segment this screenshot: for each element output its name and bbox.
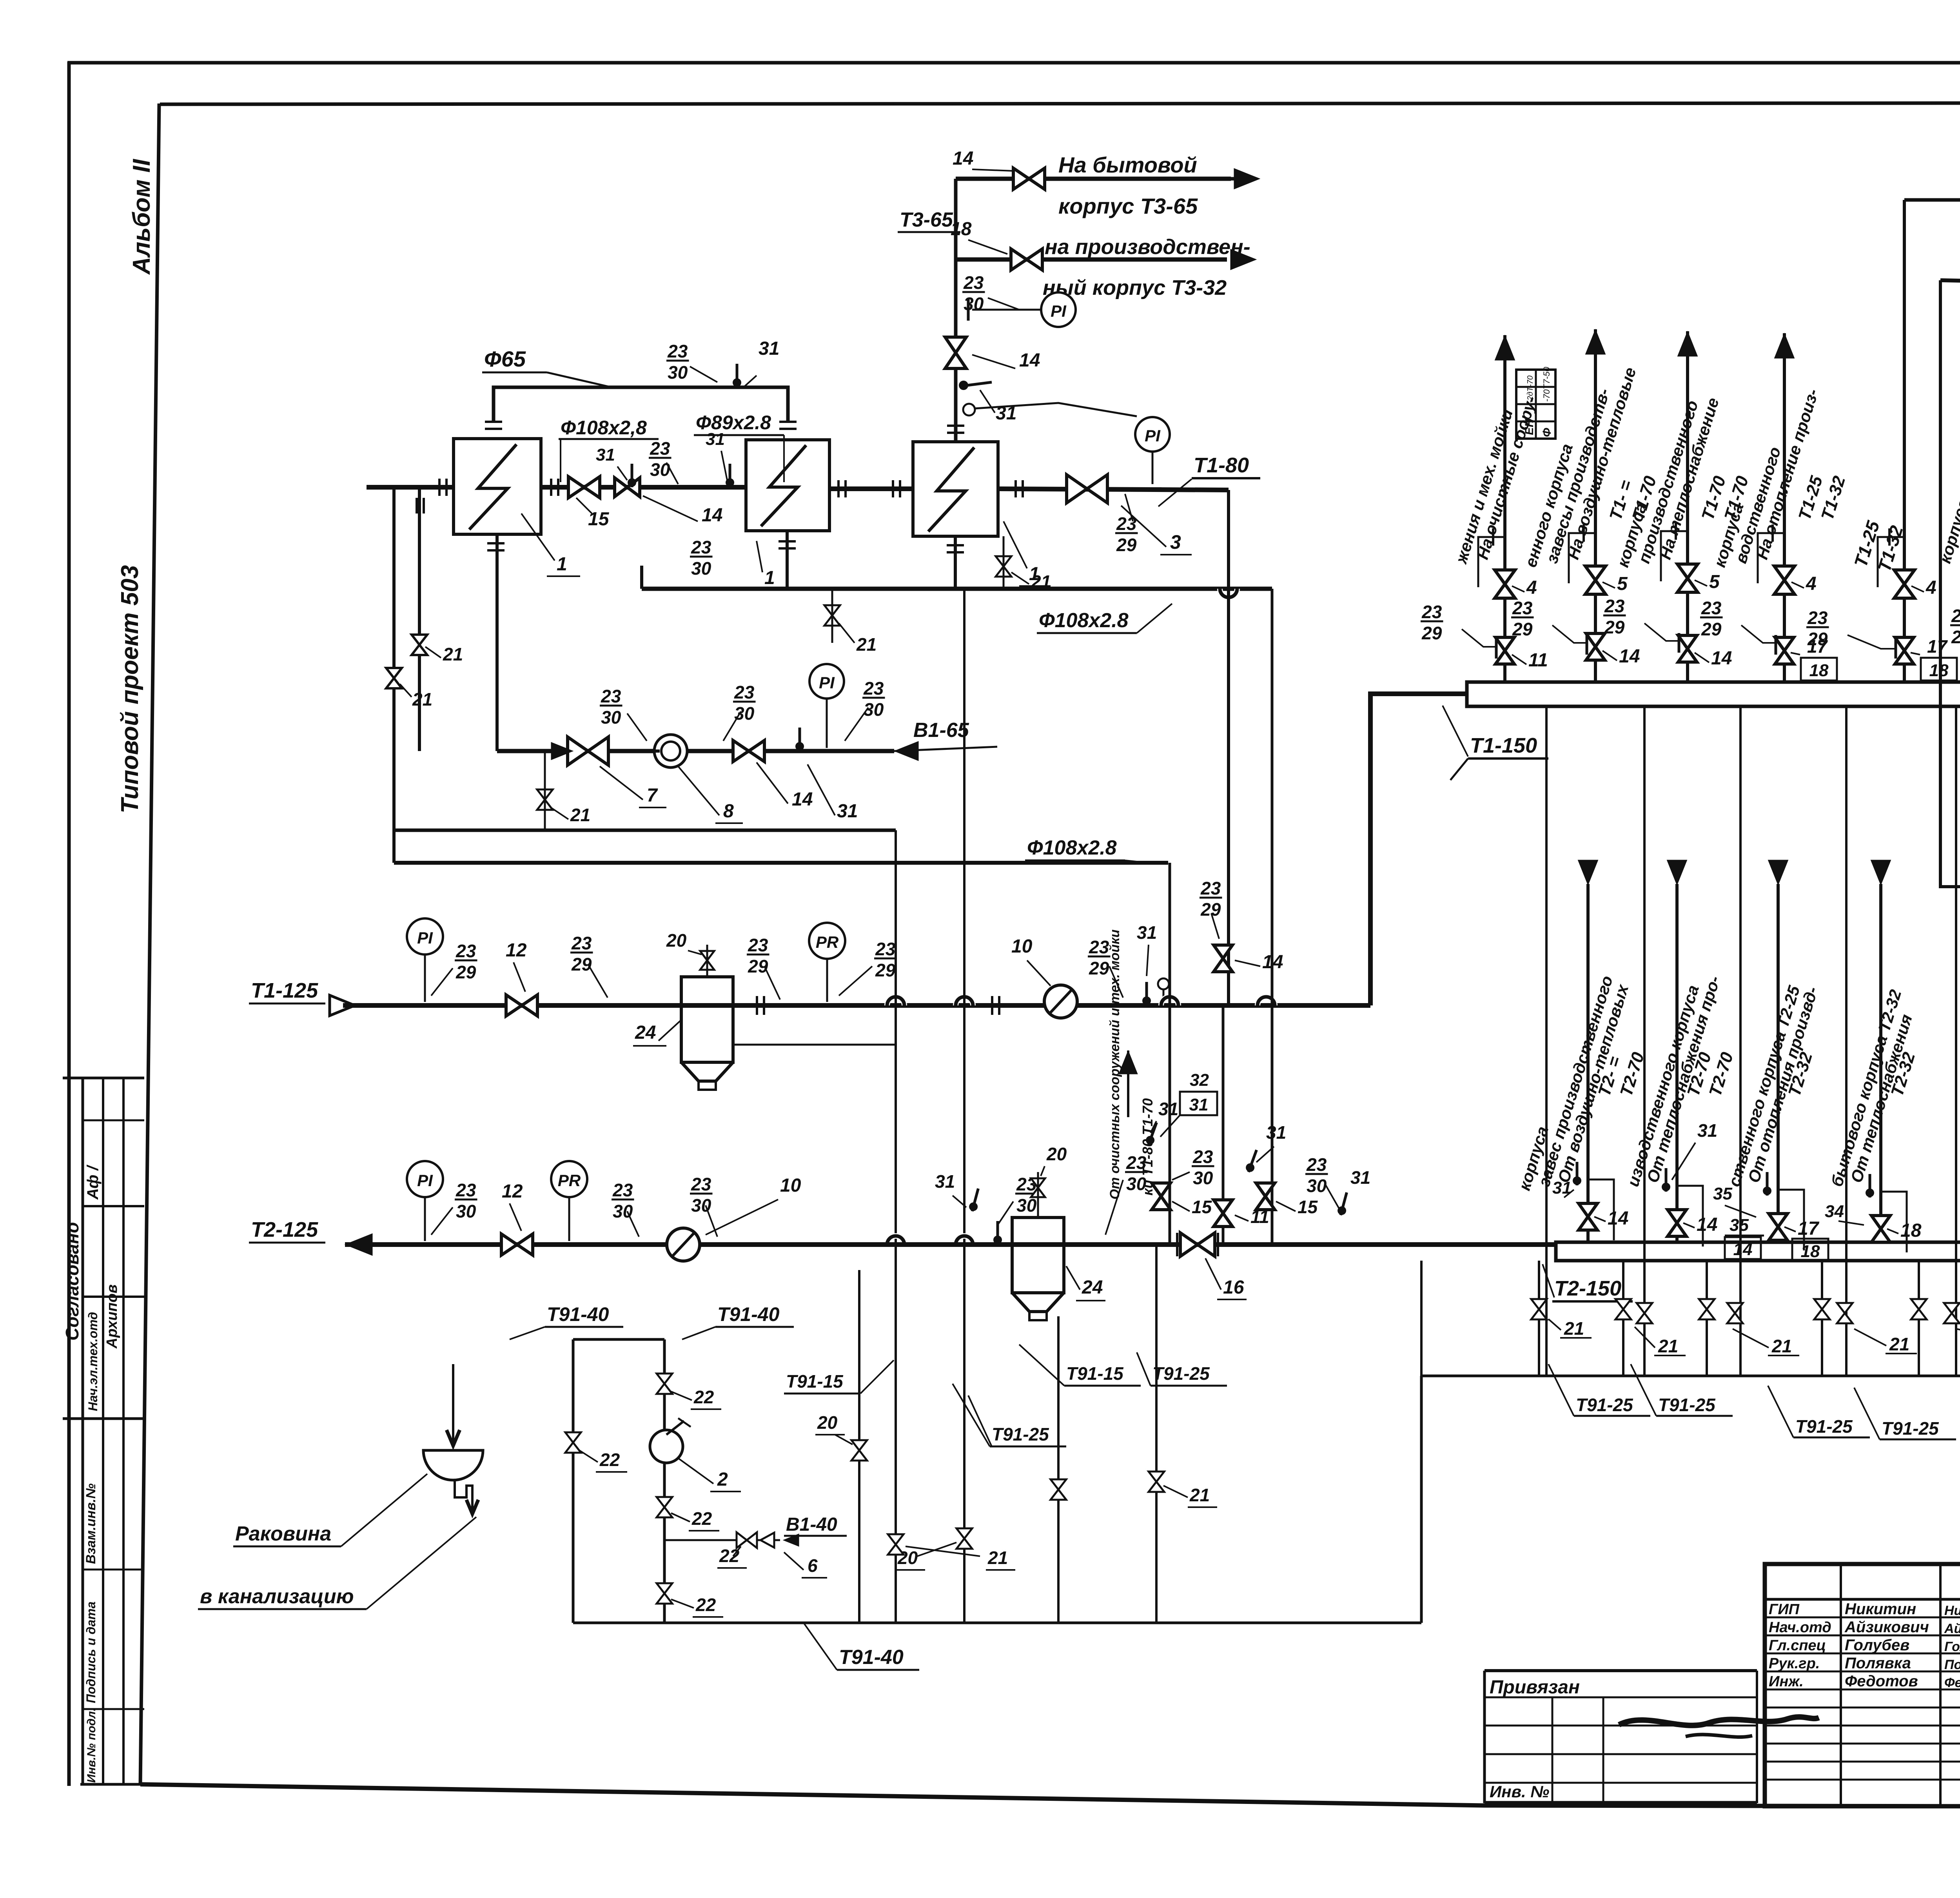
wire queue vert 2460 <box>963 589 965 1623</box>
wire HX2 bottom drop <box>786 531 789 589</box>
svg-text:30: 30 <box>668 362 688 383</box>
svg-text:29: 29 <box>1116 535 1137 555</box>
wire drain 2950 <box>1155 1245 1158 1623</box>
svg-text:23: 23 <box>1604 596 1625 616</box>
thermo 31 on 2984 <box>1145 1121 1161 1146</box>
valve 21 T2 drain 1 <box>1531 1299 1547 1319</box>
valve 22 on right vert 3 <box>657 1583 672 1604</box>
collector T2 stub <box>1420 1261 1423 1376</box>
hump T1 at 2984 <box>1161 997 1178 1005</box>
riser 4 На отопление производственного <box>1783 333 1786 682</box>
wire HX3 bottom drop <box>954 536 957 589</box>
svg-text:31: 31 <box>837 801 858 822</box>
svg-text:21: 21 <box>1031 572 1051 592</box>
wire T1 drain 2 <box>1643 706 1646 1376</box>
vent circle T1 <box>1158 978 1169 989</box>
flange right of HX2 <box>837 480 840 497</box>
svg-text:PI: PI <box>417 1171 433 1190</box>
valve 20 on 2192 <box>851 1440 867 1461</box>
svg-text:PI: PI <box>417 929 433 947</box>
wire sink inflow from collector <box>452 1364 454 1395</box>
svg-text:4: 4 <box>1526 577 1537 598</box>
margin table row2 <box>83 1205 144 1207</box>
svg-text:Ф65: Ф65 <box>484 347 526 371</box>
wire B1-65 line <box>497 749 894 753</box>
arrow T2-125 out <box>345 1234 372 1256</box>
inner frame top <box>160 103 1960 104</box>
wire Ф65 top <box>494 387 788 421</box>
svg-text:22: 22 <box>719 1546 740 1566</box>
svg-text:31: 31 <box>1266 1122 1286 1143</box>
svg-text:корпус Т3-65: корпус Т3-65 <box>1058 194 1198 218</box>
svg-text:Т91-40: Т91-40 <box>839 1646 904 1669</box>
svg-text:11: 11 <box>1528 650 1548 671</box>
svg-text:1: 1 <box>764 568 775 588</box>
wire HX main line <box>367 485 454 490</box>
svg-text:23: 23 <box>963 272 984 293</box>
instr PR T2 <box>551 1161 587 1197</box>
svg-text:22: 22 <box>599 1450 620 1470</box>
svg-text:23: 23 <box>650 438 670 459</box>
margin table row3 <box>83 1296 144 1298</box>
wire 3230 drop <box>1271 589 1274 1245</box>
valve 14 on T1-80 drop <box>1214 945 1232 972</box>
flange right of HX3 <box>1014 480 1017 497</box>
svg-text:14: 14 <box>1019 350 1040 371</box>
margin table bottom <box>80 1783 144 1786</box>
T2 riser A От воздушно-тепловых <box>1586 884 1590 1242</box>
pump 10 on T1 <box>1044 985 1077 1018</box>
wire 2984 drop <box>1169 863 1171 1245</box>
valve 12 T1 <box>506 995 537 1016</box>
svg-text:Ф108х2.8: Ф108х2.8 <box>1027 836 1117 859</box>
tank 24 on T1 <box>681 977 733 1062</box>
thermo 31 B1 <box>795 728 804 751</box>
svg-text:PR: PR <box>816 933 839 951</box>
svg-text:на производствен-: на производствен- <box>1045 235 1250 259</box>
wire drain 2192 <box>858 1270 860 1623</box>
svg-text:4: 4 <box>1926 577 1936 598</box>
svg-text:24: 24 <box>1082 1277 1103 1298</box>
riser 5 к отоплению бытового <box>1903 200 1906 682</box>
margin table top <box>63 1077 144 1080</box>
svg-text:ГИП: ГИП <box>1769 1601 1800 1618</box>
svg-text:ки Т1-80 Т1-70: ки Т1-80 Т1-70 <box>1140 1098 1156 1196</box>
svg-text:23: 23 <box>1306 1154 1327 1175</box>
heat exchanger 1a <box>746 440 829 531</box>
svg-text:Архипов: Архипов <box>104 1285 120 1349</box>
sink trap <box>455 1480 472 1511</box>
svg-text:34: 34 <box>1825 1202 1844 1221</box>
svg-text:5: 5 <box>1617 573 1628 594</box>
arrow to бытовой корпус <box>1231 177 1253 181</box>
svg-text:Нач.эл.тех.отд: Нач.эл.тех.отд <box>86 1312 100 1411</box>
svg-text:30: 30 <box>1307 1176 1327 1196</box>
flange HX2 bottom <box>779 540 796 543</box>
valve 20 on 2460 <box>956 1528 972 1549</box>
svg-text:23: 23 <box>612 1180 633 1200</box>
sink inflow arrow <box>452 1395 454 1442</box>
svg-text:18: 18 <box>951 219 972 240</box>
wire HX1 to collector <box>640 566 643 589</box>
svg-text:PI: PI <box>1145 426 1161 445</box>
valve 21 T2 drain 4 <box>1814 1299 1830 1319</box>
svg-text:31: 31 <box>1697 1120 1717 1141</box>
margin table row1 <box>83 1120 144 1121</box>
svg-text:в канализацию: в канализацию <box>200 1585 354 1608</box>
svg-text:8: 8 <box>723 801 734 822</box>
svg-text:29: 29 <box>1701 619 1722 639</box>
flange left pair <box>416 498 418 514</box>
valve 21 on 2285 <box>888 1534 904 1555</box>
svg-text:31: 31 <box>1137 922 1157 943</box>
svg-text:23: 23 <box>748 935 768 955</box>
instr PI B1 <box>809 664 844 699</box>
svg-text:Т1-80: Т1-80 <box>1194 454 1249 477</box>
wire ochist arrow <box>1119 1051 1138 1074</box>
wire T1 feed up <box>1370 694 1467 1005</box>
svg-text:Ф108х2,8: Ф108х2,8 <box>561 417 647 439</box>
svg-text:18: 18 <box>1900 1220 1922 1241</box>
instr PR T1 <box>809 923 845 959</box>
T1-150 header <box>1467 682 1960 706</box>
valve 21 T1 drain 4 <box>1944 1303 1960 1323</box>
svg-text:Т91-40: Т91-40 <box>717 1303 780 1325</box>
svg-text:Никитин: Никитин <box>1845 1600 1916 1618</box>
svg-text:14: 14 <box>1733 1240 1753 1259</box>
svg-text:10: 10 <box>780 1175 801 1196</box>
wire T2-125 main <box>345 1242 1556 1247</box>
wire T91-40 left vert <box>572 1339 575 1623</box>
instr PI T2 <box>407 1161 443 1197</box>
svg-text:Т2-150: Т2-150 <box>1554 1277 1621 1300</box>
flange HX1 top <box>485 421 502 423</box>
svg-text:Голубев: Голубев <box>1845 1637 1909 1654</box>
svg-text:Поля: Поля <box>1944 1657 1960 1672</box>
svg-text:Привязан: Привязан <box>1490 1677 1580 1698</box>
svg-text:В1-65: В1-65 <box>913 719 969 742</box>
svg-text:23: 23 <box>1200 878 1221 898</box>
svg-text:ЕН: ЕН <box>1523 418 1536 435</box>
svg-text:23: 23 <box>1512 598 1533 618</box>
arrow to производственный корпус <box>1230 249 1256 270</box>
valve 6 check on В1-40 <box>737 1532 757 1548</box>
scan smudge <box>1619 1717 1819 1726</box>
inner frame left <box>140 103 159 1784</box>
svg-text:2: 2 <box>717 1469 728 1490</box>
valve 21 T1 drain 1 <box>1637 1303 1652 1323</box>
svg-text:29: 29 <box>1604 617 1625 637</box>
hump on collector <box>1220 589 1237 597</box>
svg-text:6: 6 <box>808 1555 818 1576</box>
valve 15 on 3230 <box>1256 1183 1275 1210</box>
valve 7 on B1-65 <box>568 737 608 765</box>
margin table col a <box>82 1078 84 1784</box>
svg-text:23: 23 <box>1016 1174 1037 1194</box>
svg-text:21: 21 <box>1889 1334 1909 1354</box>
wire 2118 horizontal <box>394 829 896 832</box>
svg-text:14: 14 <box>1608 1208 1628 1229</box>
margin table col b <box>102 1078 104 1784</box>
inner frame bottom <box>140 1784 1960 1807</box>
thermo 31 right <box>1336 1191 1351 1216</box>
svg-text:Т91-40: Т91-40 <box>547 1303 609 1325</box>
T2 riser D От теплоснабжения бытового <box>1879 884 1882 1242</box>
svg-text:23: 23 <box>456 941 476 961</box>
wire drain 2700 <box>1057 1316 1060 1623</box>
wire riser5 corner to node <box>1904 198 1960 202</box>
sensor 31 on T3 riser <box>961 382 992 386</box>
valve 3 main <box>1067 475 1107 503</box>
svg-text:Типовой проект 503: Типовой проект 503 <box>116 565 143 813</box>
svg-text:29: 29 <box>1512 619 1533 639</box>
valve 14 between HX1-HX2 <box>615 478 640 497</box>
svg-text:В1-40: В1-40 <box>786 1514 837 1535</box>
svg-text:Т1-150: Т1-150 <box>1470 734 1537 757</box>
valve 21 T2 drain 5 <box>1911 1299 1927 1319</box>
wire T1-80 to T2 <box>1222 1005 1225 1245</box>
svg-text:Т2-125: Т2-125 <box>251 1218 318 1241</box>
riser 3 На теплоснабжение производственного <box>1686 331 1689 682</box>
svg-text:23: 23 <box>863 678 884 699</box>
svg-text:Т1-125: Т1-125 <box>251 979 318 1002</box>
flange right of HX1 <box>550 479 552 496</box>
svg-text:21: 21 <box>412 689 432 709</box>
hump T1 at 3230 <box>1258 997 1275 1005</box>
svg-text:29: 29 <box>1200 899 1221 920</box>
svg-text:23: 23 <box>1089 937 1109 957</box>
svg-text:22: 22 <box>695 1595 716 1615</box>
valve 16 on T2 <box>1180 1233 1215 1256</box>
svg-text:Инв.№ подл.: Инв.№ подл. <box>85 1708 98 1783</box>
valve 18 on T3-32 <box>1011 249 1042 270</box>
svg-text:30: 30 <box>1016 1195 1037 1216</box>
valve 21 T1 drain 2 <box>1727 1303 1743 1323</box>
svg-text:Т91-25: Т91-25 <box>1152 1363 1210 1384</box>
margin table col c <box>122 1078 125 1784</box>
svg-text:30: 30 <box>734 703 755 724</box>
svg-text:21: 21 <box>1564 1318 1584 1339</box>
riser 1 На очистные сооружения <box>1503 335 1506 682</box>
wire riser to T3 branches <box>954 179 958 442</box>
svg-text:18: 18 <box>1809 661 1829 680</box>
flange HX2 top <box>779 421 797 423</box>
hump v2285 T2 <box>887 1236 904 1245</box>
svg-text:Т91-25: Т91-25 <box>1795 1416 1853 1437</box>
title block grid <box>1765 1564 1960 1806</box>
svg-text:23: 23 <box>691 537 711 557</box>
svg-text:17: 17 <box>1798 1218 1820 1239</box>
svg-text:PR: PR <box>558 1171 581 1190</box>
flange left of HX3 <box>892 480 894 497</box>
vent circle on riser <box>963 404 975 416</box>
svg-text:1: 1 <box>557 554 567 575</box>
valve 20 small above tank <box>700 951 714 970</box>
svg-text:16: 16 <box>1223 1277 1244 1298</box>
svg-text:23: 23 <box>1701 598 1722 618</box>
svg-text:21: 21 <box>570 805 590 825</box>
svg-text:31: 31 <box>935 1171 955 1192</box>
valve 22 on right vert 2 <box>657 1497 672 1517</box>
tank 24 on T2 <box>1012 1218 1064 1293</box>
small table ЕН Ф <box>1516 370 1555 439</box>
svg-text:Т91-25: Т91-25 <box>1658 1395 1716 1415</box>
svg-text:23: 23 <box>1421 602 1442 622</box>
wire T91-40 right vert <box>663 1339 666 1623</box>
svg-text:23: 23 <box>456 1180 476 1200</box>
wire T1 drain 4 <box>1845 706 1847 1376</box>
svg-text:35: 35 <box>1730 1216 1749 1235</box>
svg-text:PI: PI <box>819 673 835 692</box>
wire В1-40 branch <box>664 1539 780 1541</box>
valve 21 T2 drain 2 <box>1615 1299 1631 1319</box>
instr PI T1 <box>407 918 443 954</box>
wire T1 drain 1 <box>1545 706 1548 1376</box>
svg-text:23: 23 <box>601 686 621 706</box>
svg-text:14: 14 <box>792 789 813 810</box>
valve 22 on left vert <box>565 1432 581 1453</box>
collector T91-25 <box>1421 1375 1960 1377</box>
valve 14 on B1-65 <box>733 740 764 762</box>
flange T1 a <box>756 996 758 1015</box>
svg-text:23: 23 <box>691 1174 711 1194</box>
svg-text:23: 23 <box>1951 606 1960 626</box>
svg-text:Голу: Голу <box>1944 1639 1960 1654</box>
valve 11 on ochist drop <box>1214 1200 1232 1227</box>
arrow B1-65 <box>894 741 918 761</box>
flange HX3 bottom <box>947 544 964 546</box>
svg-text:23: 23 <box>875 939 896 959</box>
wire T1-80 drop <box>1227 490 1230 1005</box>
svg-text:17: 17 <box>1927 636 1948 657</box>
svg-text:Рук.гр.: Рук.гр. <box>1769 1655 1820 1672</box>
svg-text:31: 31 <box>596 445 615 465</box>
wire T2 drain 5 <box>1918 1261 1920 1376</box>
svg-text:Альбом II: Альбом II <box>128 158 155 275</box>
heat exchanger 1b <box>913 442 998 536</box>
svg-text:3: 3 <box>1170 531 1181 553</box>
wire T2 drain 4 <box>1821 1261 1823 1376</box>
svg-text:31: 31 <box>1350 1167 1370 1188</box>
hump T1 at 2285 <box>887 997 904 1005</box>
svg-text:23: 23 <box>667 341 688 361</box>
svg-text:29: 29 <box>875 960 896 980</box>
svg-text:35: 35 <box>1713 1184 1732 1203</box>
valve 21 T2 drain 3 <box>1699 1299 1715 1319</box>
svg-text:Т91-15: Т91-15 <box>786 1371 844 1392</box>
wire T91-40 loop top <box>573 1338 664 1341</box>
T2 riser B От теплоснабжения произв <box>1675 884 1679 1242</box>
border outer top <box>67 61 1960 65</box>
instr PI above T1-80 <box>1135 417 1170 452</box>
flange on T3 riser <box>947 425 964 427</box>
svg-text:14: 14 <box>1697 1214 1717 1235</box>
svg-text:Т91-25: Т91-25 <box>992 1424 1049 1444</box>
wire T3-65 branch <box>956 177 1231 181</box>
T2 riser C От отопления произв <box>1777 884 1780 1242</box>
wire T2 drain 1 <box>1538 1261 1540 1376</box>
valve 21 drain HX3 <box>996 556 1011 577</box>
wire line2 <box>1940 280 1960 283</box>
svg-text:Т91-15: Т91-15 <box>1066 1363 1124 1384</box>
svg-text:Инв. №: Инв. № <box>1490 1782 1549 1801</box>
svg-text:Полявка: Полявка <box>1845 1655 1911 1672</box>
svg-text:Федо: Федо <box>1944 1675 1960 1690</box>
svg-text:Согласовано: Согласовано <box>62 1222 82 1341</box>
tick PI stem on main <box>1143 487 1161 490</box>
svg-text:Нач.отд: Нач.отд <box>1769 1619 1831 1636</box>
flange HX1 bottom <box>487 542 505 544</box>
svg-text:30: 30 <box>456 1201 476 1221</box>
wire T1 drain 5 <box>1955 706 1957 1376</box>
wire queue vert 2285 <box>895 830 897 1623</box>
svg-text:Ф: Ф <box>1541 428 1553 437</box>
valve 22 on right vert 1 <box>657 1374 672 1394</box>
svg-text:29: 29 <box>1951 627 1960 647</box>
svg-text:31: 31 <box>706 430 725 449</box>
wire left vertical pair b <box>418 487 421 751</box>
svg-text:29: 29 <box>1089 958 1109 978</box>
svg-text:30: 30 <box>964 294 984 314</box>
svg-text:15: 15 <box>1192 1197 1212 1217</box>
svg-text:21: 21 <box>443 644 463 664</box>
valve 15 on 2984 <box>1152 1183 1171 1210</box>
valve 20 on 2700 <box>1051 1479 1066 1500</box>
svg-text:12: 12 <box>502 1181 523 1202</box>
filter 8 on B1-65 <box>654 735 687 768</box>
svg-text:14: 14 <box>1711 648 1732 669</box>
margin table row6 <box>83 1708 144 1710</box>
svg-text:На бытовой: На бытовой <box>1058 152 1197 177</box>
arrow T1-125 inlet <box>330 995 355 1016</box>
svg-text:Федотов: Федотов <box>1845 1673 1918 1690</box>
svg-text:22: 22 <box>693 1387 714 1407</box>
svg-text:Т3-65: Т3-65 <box>900 209 953 231</box>
wire left vertical pair a <box>392 487 396 830</box>
svg-text:11: 11 <box>1250 1207 1269 1227</box>
svg-text:Взам.инв.№: Взам.инв.№ <box>83 1483 98 1564</box>
svg-text:Айзикович: Айзикович <box>1844 1619 1929 1636</box>
svg-text:31: 31 <box>1189 1095 1209 1114</box>
valve 21 drain HX2 <box>824 605 840 626</box>
margin table row5 <box>83 1569 144 1571</box>
thermo 31 T2 <box>968 1187 982 1212</box>
valve 14 vertical on T3 riser <box>945 337 966 368</box>
valve 21 on left pipe <box>412 635 427 655</box>
svg-text:21: 21 <box>856 634 877 655</box>
svg-text:21: 21 <box>1189 1485 1210 1505</box>
svg-text:14: 14 <box>953 148 973 169</box>
svg-text:21: 21 <box>1771 1336 1792 1356</box>
valve 15 between HX1-HX2 <box>568 477 600 498</box>
svg-text:30: 30 <box>1193 1168 1213 1188</box>
margin table row4 <box>63 1417 144 1420</box>
svg-text:4: 4 <box>1806 573 1817 594</box>
svg-text:23: 23 <box>1807 608 1828 628</box>
svg-text:-70Т7-50: -70Т7-50 <box>1542 367 1552 402</box>
wire HX1 bottom drop <box>495 534 499 751</box>
svg-text:PI: PI <box>1051 302 1067 320</box>
svg-text:10: 10 <box>1011 936 1033 957</box>
instr PI on T3 riser <box>1041 292 1076 327</box>
heat exchanger 1 <box>454 439 541 534</box>
wire HX bottom collector <box>642 587 1272 591</box>
hump v2460 T2 <box>956 1236 973 1245</box>
valve 14 on T3-65 <box>1013 168 1045 189</box>
svg-text:Т91-25: Т91-25 <box>1882 1418 1939 1439</box>
svg-text:7: 7 <box>647 785 658 806</box>
wire T1-125 main <box>343 1003 1370 1008</box>
